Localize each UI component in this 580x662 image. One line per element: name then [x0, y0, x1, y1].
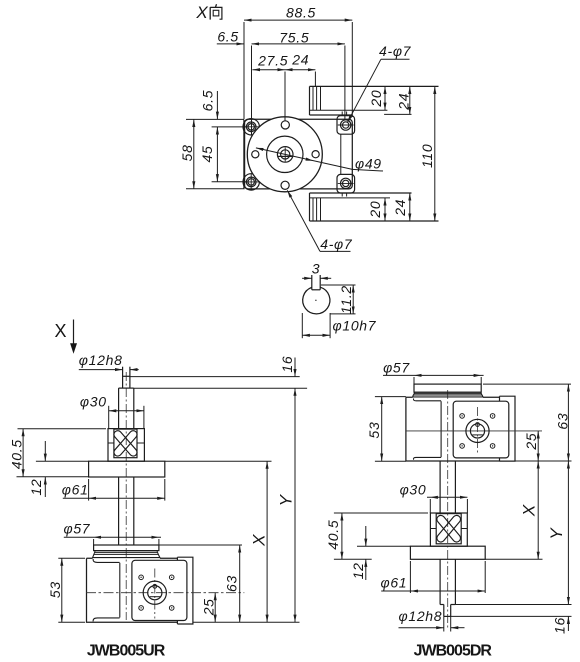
text 20 top rotated [368, 90, 384, 108]
text 40.5 UR rotated [9, 439, 25, 469]
svg-text:φ12h8: φ12h8 [399, 608, 443, 624]
text 24 bottom rotated [392, 199, 408, 217]
face plate DR [453, 401, 509, 458]
flange plate UR [89, 461, 165, 477]
bolt hole bottom [281, 181, 289, 189]
corner hole TL crosshair [243, 126, 260, 128]
screw shaft UR [119, 477, 134, 545]
bore centerline horizontal UR [86, 592, 244, 594]
bore centerline vertical DR [477, 407, 479, 455]
bottom mounting tab (lower right) [310, 193, 439, 221]
right rib between bosses [340, 134, 342, 174]
motor adapter ring UR band [94, 551, 158, 555]
output bore outer UR [143, 581, 166, 604]
svg-text:6.5: 6.5 [217, 29, 239, 45]
corner hole boss TL lobe [243, 119, 259, 135]
X view arrow [54, 320, 77, 354]
svg-text:24: 24 [291, 52, 309, 68]
text 6.5 top [217, 29, 239, 45]
svg-text:20: 20 [368, 90, 384, 108]
dim X UR [165, 461, 272, 622]
text 6.5 left rotated [200, 90, 216, 112]
dim 24 top-right [409, 86, 411, 114]
text phi57 UR [63, 520, 90, 536]
screw shaft lower DR [440, 559, 455, 604]
output bore inner DR [470, 424, 484, 438]
text 16 UR rotated [279, 356, 295, 373]
dim phi61 DR [381, 561, 485, 593]
svg-text:20: 20 [367, 201, 383, 219]
text 63 UR rotated [224, 575, 240, 592]
svg-text:58: 58 [179, 144, 195, 161]
key protruding [312, 275, 320, 290]
text 4-phi7 top [379, 43, 412, 59]
gearbox ear DR [500, 396, 516, 461]
text 110 rotated [419, 144, 435, 168]
dim 25 UR [214, 593, 216, 623]
dim 20 bottom-right [384, 198, 386, 221]
svg-text:X: X [195, 3, 208, 22]
svg-text:φ30: φ30 [400, 481, 427, 497]
dim 25 DR and X DR [485, 431, 542, 559]
leader 4-phi7 bottom [287, 190, 350, 251]
bearing housing DR [430, 513, 467, 546]
bore centerline vertical UR [154, 569, 156, 619]
dim 58 left [186, 119, 245, 188]
corner hole BL [246, 177, 256, 187]
center shaft outer circle [277, 147, 293, 163]
dim 24 bottom-right [409, 193, 411, 221]
dim phi57 UR [64, 537, 161, 545]
motor adapter ring UR flare [93, 554, 160, 557]
svg-text:16: 16 [552, 617, 568, 634]
boss BR [337, 174, 355, 196]
dim 88.5 [244, 20, 352, 119]
text phi49 [355, 156, 382, 172]
svg-text:40.5: 40.5 [325, 520, 341, 550]
text 27.5 [257, 52, 288, 68]
screw TR UR [169, 575, 174, 580]
flange plate DR [410, 546, 485, 559]
svg-text:4-φ7: 4-φ7 [320, 236, 353, 252]
svg-text:6.5: 6.5 [200, 90, 216, 112]
center shaft inner circle [281, 150, 290, 159]
motor adapter ring DR cap [414, 384, 481, 392]
text phi61 DR [380, 574, 407, 590]
text 63 DR rotated [554, 413, 570, 430]
motor adapter ring UR cap [94, 545, 159, 551]
dim 6.5 left vertical [216, 91, 218, 119]
text 4-phi7 bottom [320, 236, 353, 252]
label JWB005UR [87, 643, 166, 660]
shaft upper section UR [119, 388, 134, 429]
gearbox body UR [87, 558, 178, 622]
dim 63 UR [159, 545, 242, 622]
square flange plate [244, 119, 352, 189]
svg-text:φ57: φ57 [63, 520, 90, 536]
text 11.2 rotated [338, 285, 354, 314]
text 40.5 DR rotated [325, 520, 341, 550]
bearing wall notches DR [430, 528, 467, 530]
label X-direction [195, 3, 208, 22]
screw TL DR [460, 414, 465, 419]
svg-text:53: 53 [47, 581, 63, 598]
svg-text:X: X [54, 321, 66, 341]
bolt hole top (4-phi7) [281, 121, 289, 129]
bolt hole left [252, 151, 259, 158]
text X DR rotated [519, 504, 538, 517]
text phi30 UR [80, 394, 107, 410]
shaft tip DR [444, 605, 451, 617]
gearbox body DR [406, 397, 500, 461]
screw TL UR [139, 575, 144, 580]
svg-text:11.2: 11.2 [338, 285, 354, 314]
svg-text:Y: Y [547, 527, 566, 540]
motor adapter ring DR band [413, 392, 482, 395]
screw TR DR [490, 414, 495, 419]
svg-text:24: 24 [396, 93, 412, 111]
text Y DR rotated [547, 527, 566, 540]
dim 40.5 DR [334, 513, 428, 559]
svg-text:φ57: φ57 [383, 360, 410, 376]
text phi30 DR [400, 481, 427, 497]
dim phi61 UR [63, 479, 165, 501]
hanzi xiang glyph [210, 4, 222, 19]
dim 3 key width [302, 277, 331, 279]
svg-text:63: 63 [224, 575, 240, 592]
dim phi12h8 UR [79, 369, 139, 371]
text 53 UR rotated [47, 581, 63, 598]
dim phi30 DR [427, 497, 467, 513]
motor adapter ring DR flare [413, 395, 483, 397]
text X UR rotated [249, 534, 268, 547]
dim 6.5 top [217, 43, 244, 45]
dim 12 UR [36, 441, 89, 497]
svg-text:110: 110 [419, 144, 435, 168]
center vertical crosshair dash [284, 148, 286, 162]
svg-text:45: 45 [199, 146, 215, 163]
dim phi12h8 DR [399, 616, 465, 631]
raised boss circle [267, 136, 303, 172]
text 24 top [291, 52, 309, 68]
boss BR crosshair [338, 182, 354, 184]
svg-text:JWB005UR: JWB005UR [87, 643, 166, 660]
leader phi49 diameter line [256, 148, 383, 171]
chamber wall UR [119, 563, 121, 618]
text 12 UR rotated [28, 479, 44, 496]
center keyway line [278, 155, 293, 157]
dim 12 DR [357, 526, 410, 580]
svg-text:40.5: 40.5 [9, 439, 25, 469]
dim 53 UR [58, 558, 85, 622]
leader 4-phi7 top [347, 59, 409, 122]
output bore outer DR [466, 419, 489, 442]
text 24 top rotated [396, 93, 412, 111]
bearing inner race DR [436, 514, 461, 544]
shaft section circle [303, 287, 330, 314]
bearing inner race UR [114, 429, 137, 458]
bottom tab slot hatch lines [313, 198, 321, 221]
svg-text:16: 16 [279, 356, 295, 373]
text phi57 DR [383, 360, 410, 376]
face plate UR [132, 560, 187, 620]
text phi61 UR [62, 481, 89, 497]
bearing housing UR [108, 429, 144, 462]
bore centerline horizontal DR [406, 430, 542, 432]
boss TR crosshair [338, 124, 354, 126]
corner hole TL [246, 122, 256, 132]
svg-text:φ10h7: φ10h7 [333, 317, 377, 333]
screw BR UR [169, 606, 174, 611]
screw centerline UR [125, 372, 127, 620]
dim phi10h7 [302, 313, 330, 338]
bore keyway circle DR [476, 423, 480, 427]
screw BR DR [490, 444, 495, 449]
dim Y UR and 16 UR [130, 358, 307, 623]
dim phi30 UR [109, 406, 144, 429]
text Y UR rotated [277, 493, 296, 506]
bore key line UR [150, 596, 161, 598]
dim 53 DR [375, 397, 406, 462]
svg-text:X: X [519, 504, 538, 517]
svg-text:12: 12 [350, 562, 366, 579]
chamber wall DR [440, 401, 442, 457]
text 12 DR rotated [350, 562, 366, 579]
svg-text:12: 12 [28, 479, 44, 496]
dim 63 DR / Y DR / 16 DR [451, 384, 572, 631]
top tab slot hatch lines [313, 86, 321, 110]
svg-text:88.5: 88.5 [286, 4, 316, 20]
text 25 UR rotated [200, 598, 216, 616]
text 58 rotated [179, 144, 195, 161]
dim 11.2 [321, 285, 356, 314]
svg-text:75.5: 75.5 [279, 29, 309, 45]
bore keyway circle UR [153, 584, 157, 588]
gearbox ear UR [177, 557, 193, 624]
screw shaft upper DR [440, 461, 455, 513]
svg-text:φ12h8: φ12h8 [79, 352, 123, 368]
center dot [315, 300, 316, 301]
text phi12h8 DR [399, 608, 443, 624]
output bore inner UR [148, 586, 162, 600]
text 20 bottom rotated [367, 201, 383, 219]
dim 110 [434, 86, 436, 221]
screw BL UR [139, 606, 144, 611]
svg-text:24: 24 [392, 199, 408, 217]
screw centerline DR [447, 390, 449, 630]
svg-text:25: 25 [200, 598, 216, 616]
screw BL DR [460, 444, 465, 449]
svg-text:X: X [249, 534, 268, 547]
text 75.5 [279, 29, 309, 45]
text 16 DR rotated [552, 617, 568, 634]
label JWB005DR [414, 642, 493, 659]
dim 27.5 / 24 top [252, 70, 315, 121]
svg-text:27.5: 27.5 [257, 52, 288, 68]
dim 20 top-right [384, 86, 386, 110]
svg-text:φ61: φ61 [62, 481, 89, 497]
boss TR [337, 112, 355, 135]
bearing cross roller DR [435, 514, 462, 544]
corner hole BL crosshair [243, 173, 260, 190]
svg-text:φ30: φ30 [80, 394, 107, 410]
svg-text:63: 63 [554, 413, 570, 430]
dim 75.5 [252, 44, 345, 135]
output shaft tip UR [123, 367, 130, 388]
svg-text:4-φ7: 4-φ7 [379, 43, 412, 59]
worm bore lines UR [93, 559, 119, 621]
text 25 DR rotated [523, 433, 539, 451]
corner hole boss BL lobe [243, 174, 259, 190]
text 53 DR rotated [366, 422, 382, 439]
text 88.5 [286, 4, 316, 20]
svg-text:53: 53 [366, 422, 382, 439]
top mounting tab (upper right) [310, 86, 439, 115]
bearing wall notches UR [108, 442, 144, 444]
dim 40.5 UR [17, 429, 107, 477]
text 45 rotated [199, 146, 215, 163]
svg-text:Y: Y [277, 493, 296, 506]
dim 45 left [212, 127, 247, 182]
text 3 [312, 261, 321, 277]
svg-text:JWB005DR: JWB005DR [414, 642, 493, 659]
svg-text:3: 3 [312, 261, 321, 277]
bore key line DR [472, 434, 483, 436]
bearing cross roller UR [112, 429, 138, 458]
svg-text:φ61: φ61 [380, 574, 407, 590]
text phi12h8 UR [79, 352, 123, 368]
bolt hole right [312, 151, 319, 158]
main flange circle [247, 117, 322, 192]
text phi10h7 [333, 317, 377, 333]
svg-text:φ49: φ49 [355, 156, 382, 172]
dim phi57 DR [383, 375, 484, 384]
worm bore lines DR [413, 399, 441, 460]
svg-text:25: 25 [523, 433, 539, 451]
